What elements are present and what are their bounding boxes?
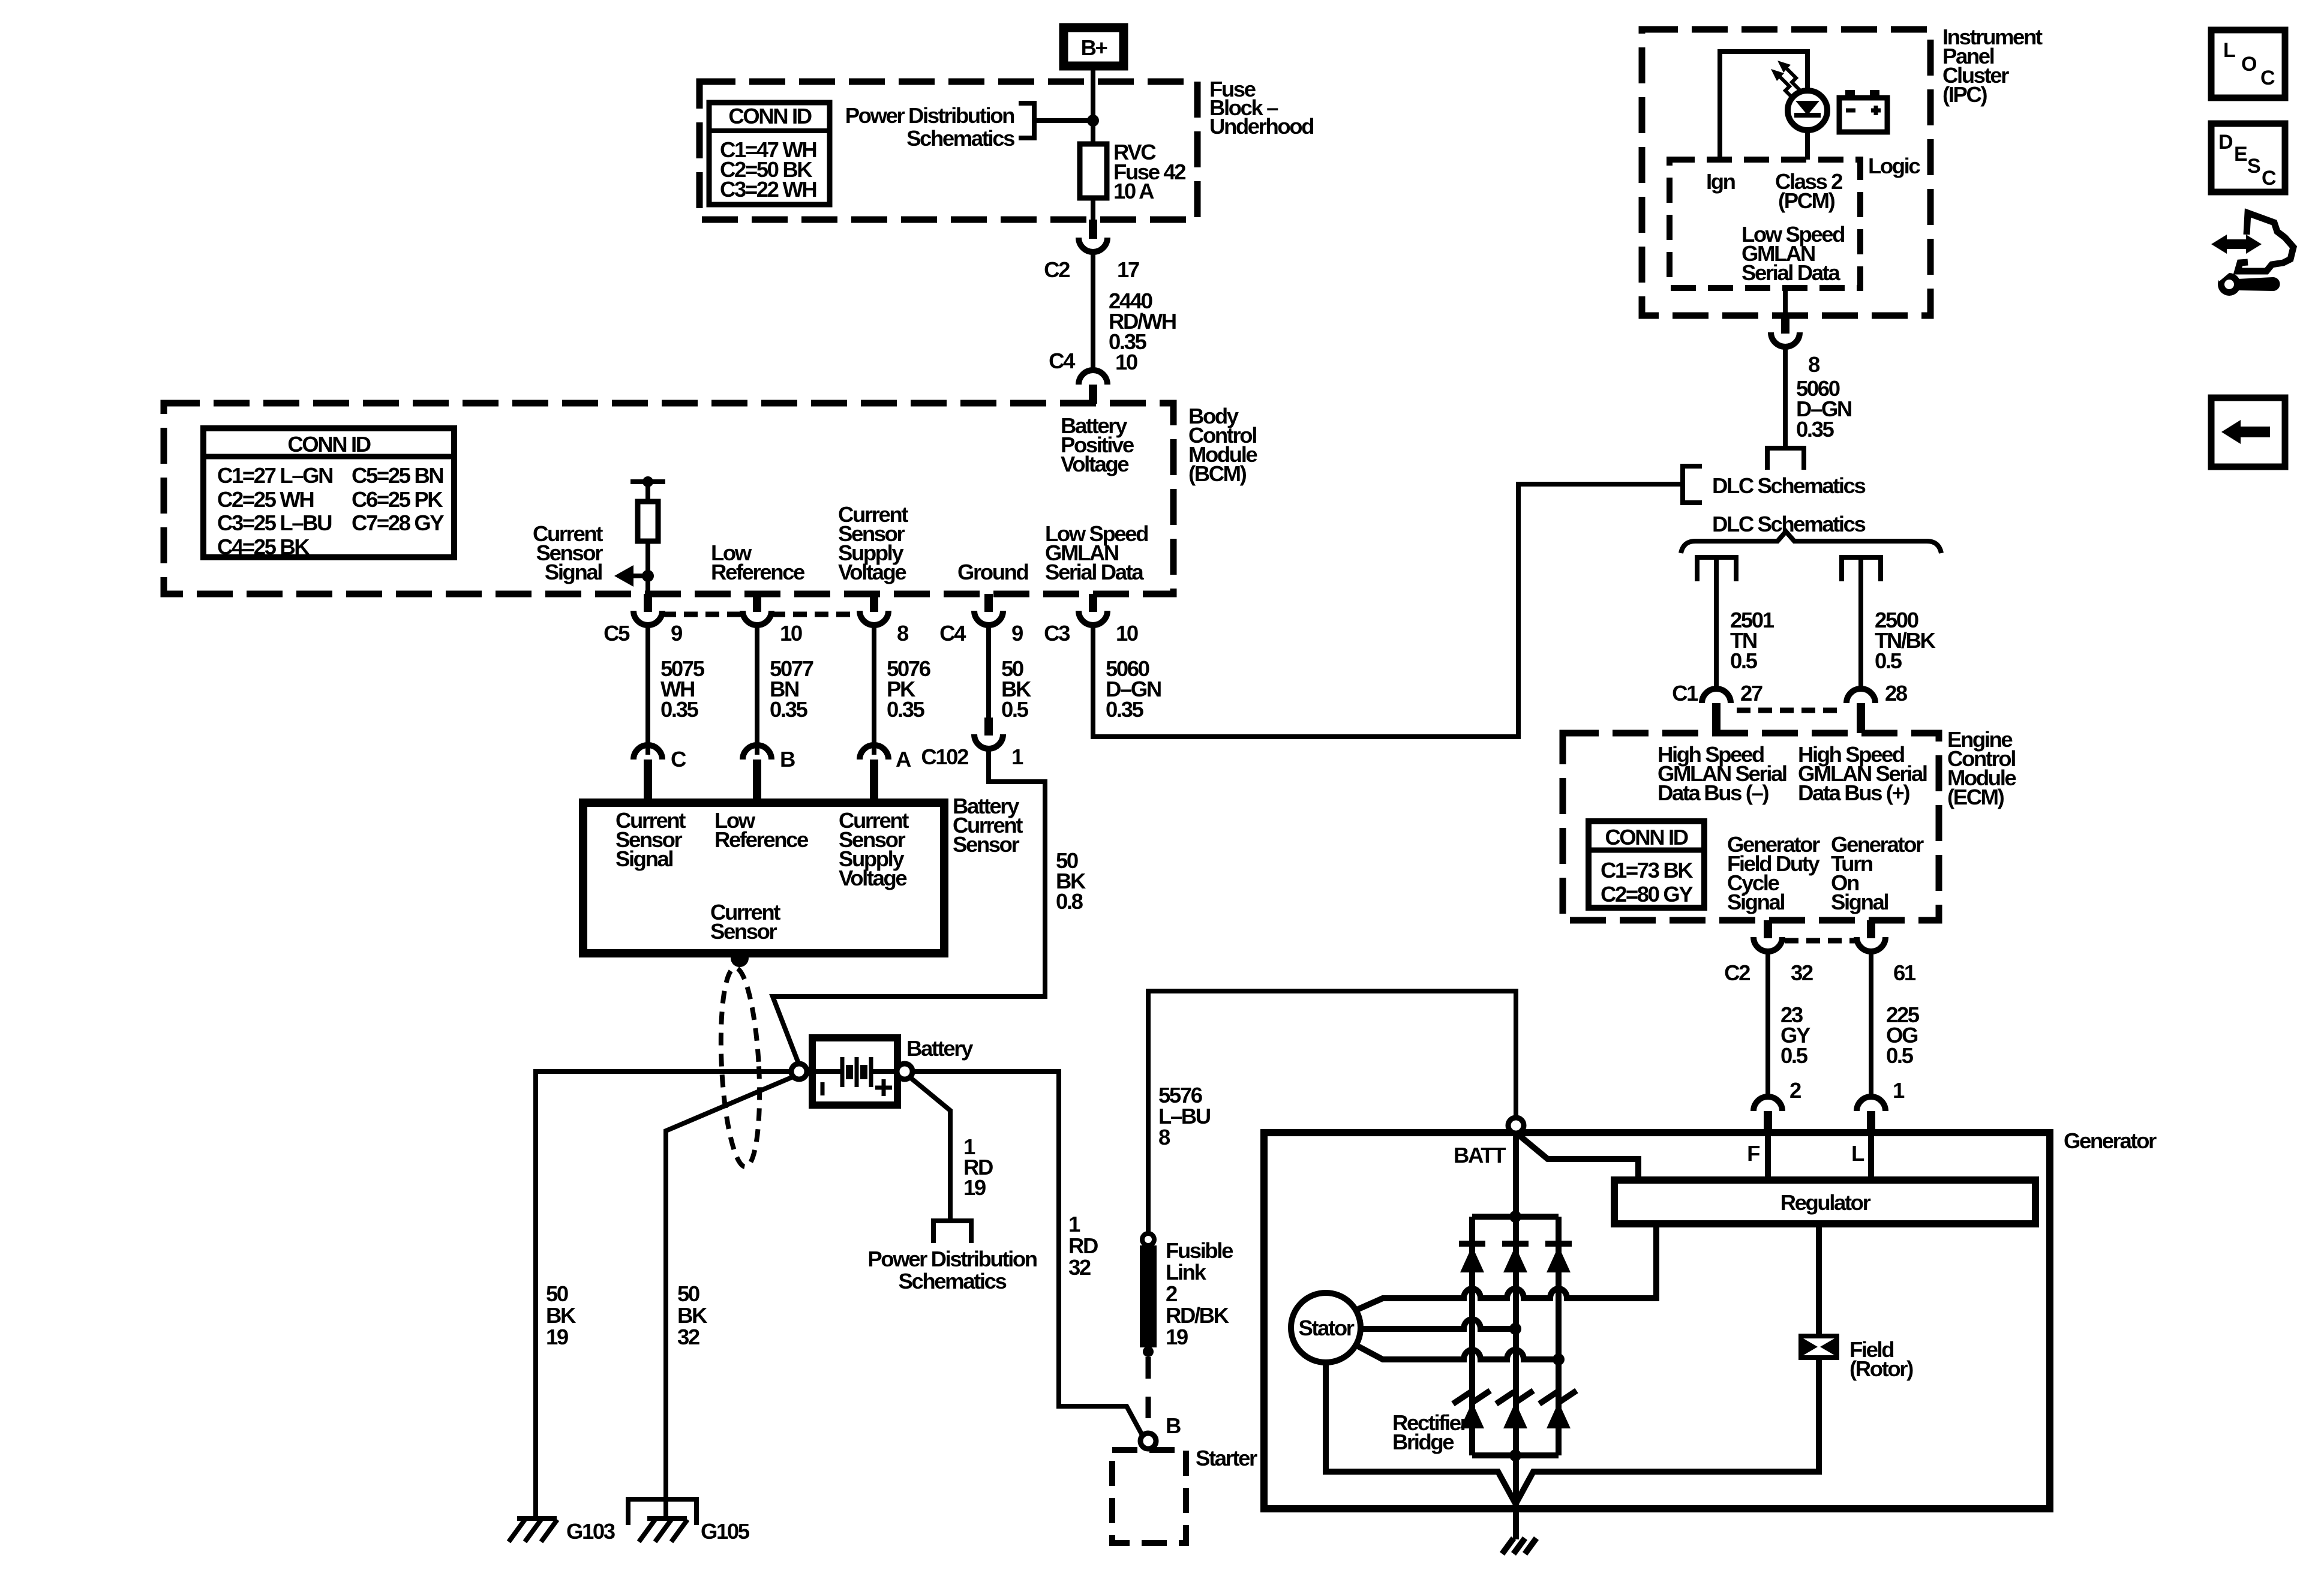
diode lower right (avalanche) — [1539, 1391, 1577, 1428]
label Fusible Link 2 RD/BK 19 — [1166, 1238, 1233, 1349]
svg-text:C6=25 PK: C6=25 PK — [352, 487, 443, 512]
wire battery negative to G103 — [536, 1071, 791, 1518]
label Field (Rotor) — [1849, 1337, 1913, 1381]
wire label 5060 D-GN 0.35 (IPC side) — [1796, 376, 1851, 442]
connector C4 pin 10 — [1049, 349, 1137, 404]
stator phase wire 2 — [1361, 1319, 1515, 1329]
wire label 5060 D-GN 0.35 — [1106, 656, 1161, 722]
generator ground symbol — [1502, 1538, 1536, 1554]
battery negative post — [791, 1064, 807, 1079]
wire label 5077 BN 0.35 — [770, 656, 813, 722]
lamp light arrows — [1771, 61, 1801, 100]
svg-text:F: F — [1747, 1141, 1759, 1166]
label Instrument Panel Cluster (IPC) — [1942, 25, 2043, 107]
brace DLC — [1681, 532, 1941, 553]
connector A pin (current sensor) — [860, 745, 911, 803]
svg-text:BATT: BATT — [1454, 1143, 1506, 1167]
svg-text:B: B — [1166, 1413, 1181, 1438]
svg-text:D: D — [2218, 131, 2233, 154]
svg-text:C102: C102 — [921, 745, 968, 769]
label Current Sensor Signal (BCM pin) — [533, 521, 603, 584]
svg-text:28: 28 — [1885, 681, 1908, 706]
wire logic to IPC pin — [1783, 288, 1788, 317]
battery minus mark — [821, 1082, 825, 1095]
svg-text:Sensor: Sensor — [710, 919, 777, 944]
svg-text:Logic: Logic — [1868, 154, 1920, 178]
wire label 2500 TN/BK 0.5 — [1875, 608, 1936, 673]
terminal BATT — [1508, 1118, 1524, 1133]
svg-text:17: 17 — [1117, 257, 1139, 282]
svg-text:C1=27 L–GN: C1=27 L–GN — [217, 463, 332, 488]
label Generator Turn On Signal — [1831, 832, 1924, 914]
label Low Speed GMLAN Serial Data (BCM pin) — [1045, 521, 1148, 584]
connector C2 pin 32 — [1724, 920, 1813, 985]
connector C4 pin 9 (ground) — [939, 594, 1023, 646]
connector C3 pin 10 (GMLAN) — [1044, 594, 1138, 646]
diode upper left — [1459, 1244, 1485, 1272]
connector C1 pin 27 — [1672, 681, 1762, 733]
wire 5060 D-GN to DLC — [1093, 484, 1682, 737]
battery plus mark — [875, 1079, 892, 1096]
wire Ign loop — [1720, 52, 1807, 160]
svg-text:B+: B+ — [1081, 35, 1107, 60]
svg-text:C: C — [2262, 167, 2277, 190]
wire 225 OG — [1869, 951, 1873, 1098]
icon back arrow — [2211, 398, 2285, 467]
svg-text:RD/BK: RD/BK — [1166, 1303, 1230, 1328]
junction node — [1087, 115, 1099, 127]
svg-text:Underhood: Underhood — [1209, 114, 1313, 139]
wire label 50 BK 32 — [677, 1281, 708, 1349]
svg-text:C: C — [671, 747, 686, 772]
wire IPC pin down to DLC bracket — [1783, 347, 1788, 448]
telltale battery icon — [1839, 90, 1887, 132]
label High Speed GMLAN Serial Data Bus (+) — [1798, 742, 1927, 805]
bracket ECM wire 28 — [1842, 557, 1881, 581]
dashed link C5 connector group — [662, 612, 743, 617]
CONN ID table (BCM) — [203, 428, 454, 559]
connector C5 pin 10 — [743, 594, 802, 646]
node bottom rail — [1509, 1449, 1521, 1461]
svg-text:Schematics: Schematics — [906, 126, 1014, 151]
svg-text:RD: RD — [1068, 1233, 1098, 1258]
label Battery Positive Voltage (BCM pin) — [1061, 413, 1134, 476]
svg-text:C4: C4 — [1049, 349, 1076, 373]
connector generator pin 2 — [1753, 1078, 1801, 1133]
wire label 23 GY 0.5 — [1780, 1002, 1810, 1068]
svg-text:10: 10 — [780, 621, 802, 646]
svg-text:C2: C2 — [1044, 257, 1070, 282]
svg-text:L: L — [1851, 1141, 1864, 1166]
svg-text:(IPC): (IPC) — [1942, 82, 1987, 107]
svg-text:Stator: Stator — [1298, 1316, 1354, 1340]
svg-text:Signal: Signal — [545, 560, 602, 584]
svg-text:Reference: Reference — [714, 827, 809, 852]
bracket to power distribution — [1019, 103, 1034, 138]
wire label 2501 TN 0.5 — [1730, 608, 1774, 673]
battery box — [812, 1038, 897, 1105]
svg-text:C1=73 BK: C1=73 BK — [1601, 858, 1694, 882]
svg-text:CONN ID: CONN ID — [287, 432, 370, 457]
fusible link 2 RD/BK 19 — [1140, 1233, 1157, 1430]
svg-text:0.5: 0.5 — [1730, 649, 1758, 673]
battery cells — [806, 1057, 903, 1087]
label Fuse Block Underhood — [1209, 77, 1313, 139]
wire battery positive to power distribution — [909, 1077, 950, 1221]
svg-text:Data Bus (+): Data Bus (+) — [1798, 781, 1909, 805]
svg-text:10: 10 — [1116, 621, 1138, 646]
wire 5075 — [645, 625, 650, 755]
svg-text:Data Bus (–): Data Bus (–) — [1658, 781, 1768, 805]
node B at starter — [1140, 1433, 1156, 1449]
svg-text:B: B — [780, 747, 795, 772]
power symbol B+ — [1064, 28, 1124, 66]
wire BATT main vertical — [1513, 1133, 1519, 1455]
svg-text:L: L — [2223, 39, 2236, 62]
connector C2 pin 17 — [1044, 220, 1139, 282]
svg-text:A: A — [896, 747, 911, 772]
svg-text:19: 19 — [1166, 1325, 1188, 1349]
label Low Speed GMLAN Serial Data (IPC) — [1742, 222, 1844, 285]
connector C102 pin 1 — [921, 718, 1023, 769]
svg-text:19: 19 — [546, 1325, 568, 1349]
wire label 5076 PK 0.35 — [887, 656, 930, 722]
wire label 50 BK 0.8 — [1056, 848, 1086, 914]
svg-text:10: 10 — [1115, 350, 1137, 374]
svg-text:Generator: Generator — [2064, 1128, 2157, 1153]
svg-text:Voltage: Voltage — [838, 560, 906, 584]
svg-text:O: O — [2241, 53, 2257, 76]
svg-text:1: 1 — [1068, 1212, 1080, 1236]
wire 50 BK to C102 — [986, 625, 991, 718]
wire B+ down to fuse — [1091, 68, 1095, 146]
svg-text:C2=80 GY: C2=80 GY — [1601, 882, 1693, 906]
wire generator internal ground — [1513, 1455, 1519, 1539]
wire lamp to logic — [1805, 130, 1810, 160]
icon LOC — [2211, 30, 2285, 98]
svg-text:Signal: Signal — [615, 846, 672, 871]
svg-text:9: 9 — [671, 621, 682, 646]
arrow current sensor signal — [614, 565, 648, 587]
node phase 3 junction — [1553, 1353, 1565, 1365]
connector C5 pin 8 — [860, 594, 909, 646]
svg-text:Bridge: Bridge — [1392, 1430, 1454, 1454]
svg-text:(PCM): (PCM) — [1778, 188, 1835, 213]
svg-text:0.35: 0.35 — [770, 697, 808, 722]
node junction on signal wire — [642, 570, 654, 582]
svg-text:8: 8 — [897, 621, 909, 646]
wire 5077 — [755, 625, 759, 755]
logic dashed box — [1670, 160, 1860, 288]
svg-text:9: 9 — [1011, 621, 1023, 646]
label Power Distribution Schematics (fuse block) — [845, 103, 1014, 151]
fuse block underhood dashed box — [699, 82, 1197, 220]
svg-text:Power Distribution: Power Distribution — [845, 103, 1014, 128]
bracket DLC (from IPC) — [1767, 448, 1804, 470]
wire BATT sense to regulator — [1520, 1136, 1638, 1180]
wire 2500 TN/BK — [1858, 557, 1863, 686]
svg-text:Fusible: Fusible — [1166, 1238, 1233, 1263]
rectifier bridge rails and legs — [1472, 1217, 1559, 1455]
svg-text:(ECM): (ECM) — [1947, 785, 2004, 809]
label Current Sensor (component name) — [710, 900, 780, 944]
svg-text:0.35: 0.35 — [660, 697, 699, 722]
label Body Control Module (BCM) — [1188, 404, 1257, 486]
svg-text:C3=22 WH: C3=22 WH — [720, 177, 816, 202]
label Class 2 (PCM) — [1775, 169, 1842, 213]
svg-text:Signal: Signal — [1831, 890, 1888, 914]
wire F pin inside generator — [1765, 1133, 1771, 1180]
svg-text:(BCM): (BCM) — [1188, 461, 1247, 486]
label Low Reference (BCM pin) — [711, 541, 805, 584]
connector B pin (current sensor) — [743, 745, 795, 803]
wire bracket to junction — [1034, 118, 1093, 123]
svg-text:Serial Data: Serial Data — [1742, 260, 1840, 285]
svg-text:E: E — [2234, 143, 2248, 166]
svg-text:0.5: 0.5 — [1886, 1043, 1914, 1068]
svg-text:CONN ID: CONN ID — [728, 104, 811, 128]
ECM dashed box — [1563, 733, 1939, 920]
svg-text:32: 32 — [677, 1325, 699, 1349]
svg-text:C5=25 BN: C5=25 BN — [352, 463, 443, 488]
node top rail — [1509, 1211, 1521, 1223]
bracket to power distribution schematics — [933, 1221, 971, 1243]
current sensor box — [583, 803, 944, 953]
ground G103 — [509, 1518, 615, 1544]
diode upper middle — [1502, 1244, 1529, 1272]
label Current Sensor Supply Voltage (BCM pin) — [838, 502, 908, 584]
diode lower middle (avalanche) — [1496, 1391, 1533, 1428]
svg-text:19: 19 — [963, 1175, 986, 1200]
dashed link C2 connector (ECM) — [1785, 938, 1857, 944]
svg-text:S: S — [2247, 155, 2261, 178]
svg-text:Schematics: Schematics — [899, 1269, 1007, 1293]
svg-text:10 A: 10 A — [1113, 179, 1154, 203]
wire label 5576 L-BU 8 — [1158, 1083, 1211, 1149]
resistor (BCM internal pull-up) — [630, 476, 665, 594]
svg-text:50: 50 — [546, 1281, 568, 1306]
svg-text:CONN ID: CONN ID — [1605, 825, 1688, 849]
CONN ID table (fuse block) — [709, 103, 830, 205]
connector C pin (current sensor) — [633, 745, 686, 803]
label Engine Control Module (ECM) — [1947, 727, 2016, 809]
wire label 2440 RD/WH 0.35 — [1109, 289, 1176, 354]
svg-text:Starter: Starter — [1196, 1446, 1257, 1470]
svg-text:Voltage: Voltage — [839, 866, 907, 890]
svg-text:C1: C1 — [1672, 681, 1698, 706]
icon DESC — [2211, 124, 2285, 192]
svg-text:(Rotor): (Rotor) — [1849, 1356, 1913, 1381]
svg-text:C2: C2 — [1724, 960, 1750, 985]
stator — [1291, 1293, 1361, 1362]
wire fuse to C2 — [1091, 198, 1095, 221]
stator phase wire 1 — [1356, 1224, 1656, 1310]
svg-text:8: 8 — [1158, 1125, 1170, 1149]
svg-text:BK: BK — [546, 1303, 577, 1328]
charge indicator lamp — [1788, 91, 1827, 130]
wire stator bottom to ground run — [1326, 1362, 1515, 1503]
starter dashed box — [1112, 1450, 1186, 1543]
svg-text:C3: C3 — [1044, 621, 1070, 646]
svg-text:0.35: 0.35 — [1796, 417, 1834, 442]
svg-text:C2=25 WH: C2=25 WH — [217, 487, 313, 512]
wire label 1 RD 19 — [963, 1134, 993, 1200]
wire field down to ground run — [1516, 1358, 1819, 1503]
svg-text:1: 1 — [1011, 745, 1023, 769]
node phase 2 junction — [1509, 1323, 1521, 1335]
wire 5576 L-BU to generator BATT — [1148, 991, 1516, 1235]
label Power Distribution Schematics — [867, 1247, 1037, 1293]
svg-text:0.5: 0.5 — [1001, 697, 1029, 722]
bracket ECM wire 27 — [1697, 557, 1736, 581]
connector C5 pin 9 — [603, 594, 682, 646]
wire battery positive to fusible link branch — [912, 1071, 1143, 1436]
svg-text:0.35: 0.35 — [1106, 697, 1144, 722]
svg-text:C3=25 L–BU: C3=25 L–BU — [217, 511, 332, 535]
svg-text:DLC Schematics: DLC Schematics — [1712, 473, 1866, 498]
svg-text:C4=25 BK: C4=25 BK — [217, 535, 310, 559]
label High Speed GMLAN Serial Data Bus (-) — [1658, 742, 1786, 805]
svg-text:C4: C4 — [939, 621, 966, 646]
label Battery Current Sensor — [953, 794, 1023, 857]
wire 5076 — [872, 625, 876, 755]
CONN ID table (ECM) — [1589, 821, 1704, 908]
fuse RVC Fuse 42 10 A — [1080, 140, 1185, 203]
BCM dashed box — [164, 403, 1173, 594]
IPC dashed box — [1642, 29, 1930, 316]
svg-text:0.5: 0.5 — [1875, 649, 1902, 673]
wire regulator to field — [1816, 1224, 1822, 1336]
svg-text:Serial Data: Serial Data — [1045, 560, 1144, 584]
svg-text:G105: G105 — [701, 1519, 750, 1544]
wire C2 to C4 — [1091, 252, 1095, 371]
wire label 1 RD 32 — [1068, 1212, 1098, 1280]
svg-text:2: 2 — [1789, 1078, 1801, 1103]
svg-text:0.5: 0.5 — [1780, 1043, 1808, 1068]
wire C102 to battery negative — [773, 749, 1045, 1068]
label Rectifier Bridge — [1392, 1410, 1469, 1454]
wire label 5075 WH 0.35 — [660, 656, 705, 722]
svg-text:50: 50 — [677, 1281, 699, 1306]
svg-text:Battery: Battery — [906, 1036, 974, 1061]
wire 2501 TN — [1714, 557, 1719, 686]
label Current Sensor Supply Voltage (sensor pin) — [839, 808, 909, 890]
svg-text:Regulator: Regulator — [1780, 1190, 1871, 1215]
battery positive post — [897, 1064, 912, 1079]
wire label 225 OG 0.5 — [1886, 1002, 1920, 1068]
svg-text:0.35: 0.35 — [887, 697, 925, 722]
svg-text:Ground: Ground — [957, 560, 1028, 584]
icon vehicle data exchange — [2211, 213, 2293, 296]
svg-text:32: 32 — [1068, 1255, 1091, 1280]
diode lower left (avalanche) — [1453, 1391, 1490, 1428]
svg-text:32: 32 — [1791, 960, 1813, 985]
wire label 50 BK 0.5 — [1001, 656, 1032, 722]
connector C2 pin 61 — [1857, 920, 1916, 985]
svg-text:Power Distribution: Power Distribution — [867, 1247, 1037, 1271]
connector C1 pin 28 — [1846, 681, 1908, 733]
stator phase wire 3 — [1356, 1345, 1559, 1359]
current sensor clamp node — [731, 949, 749, 967]
svg-text:Sensor: Sensor — [953, 832, 1020, 857]
svg-text:C5: C5 — [603, 621, 630, 646]
svg-text:8: 8 — [1808, 352, 1820, 377]
svg-text:Signal: Signal — [1727, 890, 1784, 914]
wire 23 GY — [1765, 951, 1770, 1098]
svg-text:BK: BK — [677, 1303, 708, 1328]
svg-text:1: 1 — [1893, 1078, 1905, 1103]
svg-text:27: 27 — [1740, 681, 1762, 706]
svg-text:Link: Link — [1166, 1260, 1207, 1284]
svg-text:2: 2 — [1166, 1281, 1177, 1306]
wire L pin inside generator — [1868, 1133, 1874, 1180]
wire battery negative to G105 — [666, 1076, 794, 1518]
svg-text:Voltage: Voltage — [1061, 452, 1129, 476]
label Current Sensor Signal (sensor pin) — [615, 808, 686, 871]
connector IPC pin 8 — [1771, 316, 1820, 377]
svg-text:G103: G103 — [566, 1519, 615, 1544]
label Generator Field Duty Cycle Signal — [1727, 832, 1821, 914]
connector generator pin 1 — [1857, 1078, 1905, 1133]
current sensor clamp loop (dashed ellipse) — [716, 967, 764, 1168]
generator box — [1264, 1133, 2050, 1509]
bracket DLC (from BCM wire) — [1683, 466, 1702, 503]
svg-text:61: 61 — [1893, 960, 1916, 985]
diode upper right — [1545, 1244, 1572, 1272]
wire label 50 BK 19 — [546, 1281, 577, 1349]
regulator box — [1614, 1180, 2035, 1224]
label Low Reference (sensor pin) — [714, 808, 809, 852]
svg-text:Ign: Ign — [1706, 169, 1736, 194]
ground G105 — [628, 1499, 750, 1544]
svg-text:C7=28 GY: C7=28 GY — [352, 511, 444, 535]
dashed link C1 connector — [1737, 708, 1840, 713]
svg-text:C: C — [2260, 67, 2275, 89]
svg-text:Reference: Reference — [711, 560, 805, 584]
field rotor symbol — [1801, 1336, 1837, 1358]
svg-text:0.8: 0.8 — [1056, 889, 1083, 914]
